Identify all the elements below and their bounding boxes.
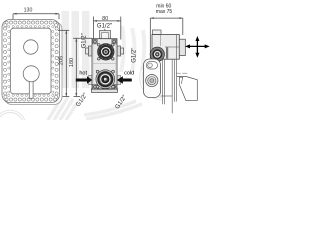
hot arrow: [76, 76, 92, 84]
svg-text:cold: cold: [124, 70, 134, 76]
svg-text:180: 180: [69, 58, 75, 67]
side body circles: [150, 47, 164, 61]
pill opening: [146, 62, 157, 69]
top cartridge (volume control): [98, 44, 115, 61]
wall lines: [161, 35, 177, 113]
watermark vertical bars: [62, 11, 90, 88]
lever circle: [23, 66, 39, 82]
handle top dashes: [176, 72, 187, 74]
adjustment cross arrows: [188, 39, 206, 54]
escutcheon oval plate: [144, 59, 161, 98]
knob circle (top): [24, 40, 38, 54]
watermark swoosh bottom-center: [84, 101, 142, 119]
dim 205: [58, 30, 69, 96]
depth dimension: [150, 18, 183, 59]
dim 80: [94, 17, 121, 40]
lever stem: [29, 81, 33, 99]
corner screw bosses: [93, 39, 117, 89]
svg-text:G1/2": G1/2": [97, 24, 112, 30]
svg-text:205: 205: [59, 56, 65, 65]
top block: [152, 30, 161, 35]
dimension 130: [13, 14, 59, 20]
bottom cartridge screws: [96, 70, 114, 88]
hole ring A (outer, larger holes): [3, 21, 58, 101]
watermark arcs bottom-left corner: [0, 110, 26, 142]
svg-text:G1/2": G1/2": [81, 33, 87, 48]
watermark diagonal stripes bottom-left-center: [48, 97, 77, 120]
cold arrow: [117, 76, 132, 84]
svg-text:max 75: max 75: [156, 9, 173, 15]
hole ring B (inner, smaller holes): [8, 25, 54, 96]
knob front: [146, 75, 158, 87]
centerline tick: [104, 29, 106, 31]
upper right boss: [117, 46, 121, 56]
lever handle: [177, 77, 198, 101]
svg-text:G1/2": G1/2": [132, 48, 138, 63]
lower left boss: [89, 76, 93, 85]
svg-text:80: 80: [102, 16, 108, 22]
watermark circle arcs behind escutcheon: [140, 56, 162, 100]
valve body: [92, 39, 117, 89]
svg-text:hot: hot: [79, 71, 87, 77]
lower right boss: [117, 76, 121, 85]
main side body: [152, 35, 179, 60]
bottom cartridge (thermostat): [96, 70, 115, 89]
inner plate: [11, 28, 52, 94]
top cartridge screws: [98, 44, 115, 61]
front plate: [2, 20, 60, 103]
dim 180: [73, 38, 92, 96]
bottom flange: [92, 89, 118, 93]
watermark wavy streaks mid-right: [121, 26, 144, 72]
upper left boss: [89, 46, 93, 56]
svg-text:130: 130: [24, 8, 33, 14]
back plate: [4, 22, 62, 105]
right boss of side body: [179, 39, 185, 55]
top port: [100, 31, 111, 39]
